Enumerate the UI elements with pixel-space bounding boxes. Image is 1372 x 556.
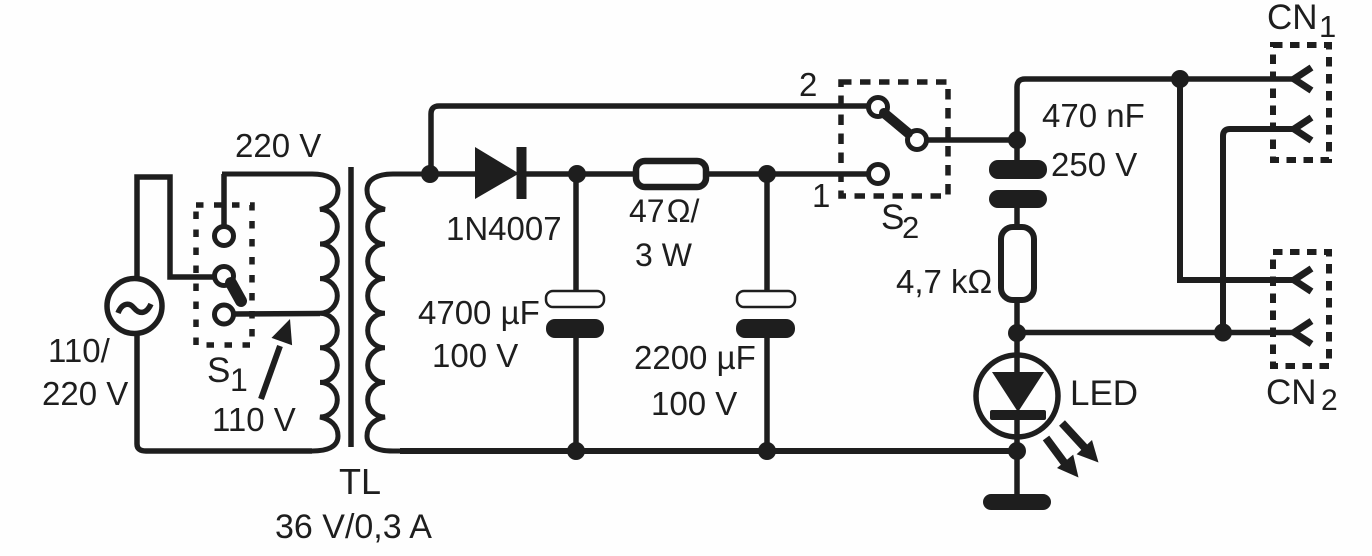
node junction C2 bottom	[758, 442, 776, 460]
wire AC top to S1 pole	[137, 177, 214, 281]
CN2 pin 2	[1294, 321, 1312, 344]
wire secondary top to diode anode	[430, 171, 476, 177]
svg-text:1N4007: 1N4007	[446, 210, 562, 247]
LED light arrow 1	[1062, 423, 1099, 463]
label S2	[881, 198, 919, 245]
CN2 pin 1	[1294, 269, 1312, 292]
arrow pointing to 110V tap wire	[261, 319, 292, 399]
svg-text:100 V: 100 V	[432, 337, 518, 374]
svg-text:S: S	[881, 198, 904, 237]
S1 contact 220V (top)	[215, 227, 234, 246]
wire LED node to CN2 pin 2	[1017, 330, 1295, 336]
capacitor C2 bottom wire	[764, 338, 770, 451]
CN1 pin 2	[1294, 118, 1312, 141]
S2 contact position 2	[869, 98, 888, 117]
node junction at C1 top	[568, 165, 586, 183]
S1 lever	[231, 283, 241, 301]
svg-text:4,7 kΩ: 4,7 kΩ	[896, 263, 992, 300]
node junction C1 bottom	[567, 442, 585, 460]
svg-text:110 V: 110 V	[212, 401, 296, 438]
CN1 pin 1	[1294, 68, 1312, 91]
bottom rail wire	[400, 448, 1017, 454]
S1 contact pole (middle)	[215, 267, 234, 286]
svg-text:110/: 110/	[48, 332, 111, 369]
capacitor C3 plate 2	[989, 190, 1047, 208]
LED D2 triangle	[992, 372, 1044, 412]
svg-text:36 V/0,3 A: 36 V/0,3 A	[275, 508, 432, 546]
svg-text:2: 2	[902, 210, 919, 245]
wire R2 to LED node	[1014, 300, 1020, 333]
label CN2	[1266, 373, 1338, 417]
capacitor C2 positive plate	[737, 291, 795, 307]
connector CN2 (dashed enclosure)	[1273, 252, 1329, 366]
capacitor C3 470nF wire	[1014, 140, 1020, 162]
wire S1 top contact to 220V tap	[221, 174, 227, 227]
wire tap up to S2 position 2	[431, 106, 868, 174]
LED D2 anode wire	[1014, 333, 1020, 373]
transformer TL secondary winding	[367, 174, 434, 451]
wire top rail down to CN2 pin 1	[1180, 79, 1295, 280]
svg-text:3 W: 3 W	[635, 237, 693, 273]
svg-text:2: 2	[1321, 384, 1338, 417]
LED D2 cathode wire	[1014, 418, 1020, 494]
svg-text:100 V: 100 V	[651, 385, 737, 422]
LED D2 cathode bar	[990, 410, 1046, 420]
S1 contact 110V (bottom)	[215, 305, 234, 324]
svg-text:LED: LED	[1070, 374, 1138, 413]
capacitor C2 2200uF top wire	[764, 174, 770, 293]
node junction CN1 pin2 net meets LED net	[1214, 324, 1232, 342]
AC source 110/220 V	[107, 279, 162, 334]
switch S1 (dashed enclosure)	[196, 205, 252, 345]
switch S2 (dashed enclosure)	[841, 82, 948, 196]
node junction LED top	[1008, 324, 1026, 342]
wire diode cathode to resistor R1	[526, 171, 634, 177]
svg-text:1: 1	[812, 177, 830, 214]
capacitor C1 bottom wire	[573, 338, 579, 451]
S2 contact position 1	[869, 165, 888, 184]
node junction at rectifier input	[421, 165, 439, 183]
resistor R2 4,7k	[1001, 227, 1034, 300]
svg-text:CN: CN	[1267, 0, 1318, 37]
label CN1	[1267, 0, 1336, 44]
wire C3 node up and right to CN1 pin 1	[1017, 79, 1294, 140]
capacitor C1 positive plate	[546, 291, 604, 307]
wire resistor R1 to S2 position 1	[708, 171, 868, 177]
diode D1 1N4007	[475, 147, 527, 199]
node junction top rail to CN2	[1171, 70, 1189, 88]
label S1	[207, 351, 248, 398]
ground symbol	[983, 494, 1051, 510]
transformer TL primary winding	[222, 174, 338, 451]
node junction LED bottom	[1008, 442, 1026, 460]
wire CN1 pin 2 down to LED node	[1223, 129, 1295, 333]
svg-text:470 nF: 470 nF	[1042, 97, 1145, 134]
resistor R1 47 ohm	[636, 161, 706, 187]
node junction at C2 top	[758, 165, 776, 183]
node junction C3 top	[1008, 131, 1026, 149]
svg-text:1: 1	[1319, 9, 1336, 44]
svg-text:220 V: 220 V	[235, 127, 321, 164]
connector CN1 (dashed enclosure)	[1273, 45, 1329, 160]
capacitor C1 4700uF top wire	[573, 174, 579, 293]
LED light arrow 2	[1046, 438, 1079, 478]
svg-text:2: 2	[799, 66, 817, 103]
svg-text:4700 µF: 4700 µF	[418, 294, 540, 331]
svg-text:2200 µF: 2200 µF	[634, 339, 756, 376]
svg-text:220 V: 220 V	[42, 375, 128, 412]
svg-text:TL: TL	[339, 461, 381, 502]
wire S1 bottom contact to 110V tap	[234, 311, 320, 317]
svg-text:1: 1	[230, 362, 248, 398]
svg-text:47Ω/: 47Ω/	[629, 193, 700, 229]
capacitor C3 bottom wire	[1014, 208, 1020, 229]
LED D2 circle	[976, 355, 1058, 437]
capacitor C2 negative plate	[736, 319, 795, 338]
transformer TL core	[348, 167, 354, 447]
svg-text:CN: CN	[1266, 373, 1317, 412]
capacitor C1 negative plate	[546, 319, 604, 338]
S2 lever	[884, 113, 908, 133]
wire AC bottom to transformer primary bottom	[137, 331, 312, 451]
svg-text:S: S	[207, 351, 230, 390]
S2 pole contact	[908, 131, 927, 150]
capacitor C3 plate 1	[989, 160, 1047, 179]
svg-text:250 V: 250 V	[1051, 146, 1137, 183]
label 110/ 220 V (source voltage)	[42, 332, 128, 412]
wire S2 pole to C3 node	[927, 137, 1017, 143]
